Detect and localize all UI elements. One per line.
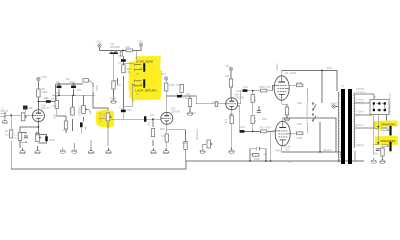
svg-text:22n: 22n (150, 113, 155, 117)
svg-text:R14: R14 (161, 72, 166, 76)
svg-text:GND: GND (110, 96, 116, 100)
svg-text:22n: 22n (77, 88, 82, 92)
svg-text:1.5k: 1.5k (253, 97, 257, 103)
svg-text:C4: C4 (56, 80, 60, 84)
svg-text:12AU7B: 12AU7B (234, 96, 244, 100)
svg-text:LOOP_RETURN: LOOP_RETURN (136, 88, 157, 92)
svg-text:presence: presence (195, 129, 199, 140)
svg-text:V4: V4 (285, 71, 289, 75)
svg-text:MID: MID (53, 114, 57, 119)
svg-text:10k: 10k (176, 83, 181, 87)
svg-text:R29: R29 (297, 122, 302, 126)
svg-text:1M: 1M (117, 83, 121, 87)
svg-text:+340V: +340V (275, 63, 279, 71)
svg-text:+25V: +25V (137, 40, 143, 44)
svg-text:22k: 22k (126, 45, 131, 49)
svg-text:1M: 1M (186, 92, 190, 96)
svg-text:BRIGHT: BRIGHT (91, 83, 95, 93)
svg-text:C7: C7 (118, 54, 122, 58)
svg-text:R7: R7 (51, 97, 55, 101)
svg-text:R9: R9 (66, 77, 70, 81)
svg-text:R11: R11 (63, 128, 68, 132)
svg-text:10uF: 10uF (49, 138, 55, 142)
svg-text:SPEAKER2: SPEAKER2 (381, 139, 396, 143)
svg-text:16 Ohm: 16 Ohm (356, 90, 365, 94)
svg-text:(green): (green) (355, 123, 363, 127)
svg-text:250k: 250k (95, 85, 99, 91)
svg-text:22n: 22n (236, 89, 241, 93)
svg-text:EL84: EL84 (290, 71, 297, 75)
svg-text:(red): (red) (326, 66, 332, 70)
svg-text:33k: 33k (52, 104, 57, 108)
svg-text:R25: R25 (262, 117, 267, 121)
svg-text:47k: 47k (126, 70, 131, 74)
svg-text:INPUT: INPUT (1, 109, 9, 113)
svg-text:10k: 10k (224, 119, 228, 124)
svg-text:C16: C16 (240, 125, 245, 129)
svg-text:68k: 68k (29, 106, 34, 110)
svg-text:Impedance Switch: Impedance Switch (388, 93, 392, 115)
svg-text:R22: R22 (228, 114, 232, 119)
svg-text:+340V: +340V (330, 102, 338, 106)
svg-text:1.5k: 1.5k (161, 134, 167, 138)
svg-text:10n: 10n (374, 152, 379, 156)
svg-text:LOOP_SEND: LOOP_SEND (136, 60, 153, 64)
svg-text:100k: 100k (182, 141, 188, 145)
svg-text:R19: R19 (160, 127, 165, 131)
svg-text:TREBLE: TREBLE (78, 106, 82, 116)
svg-text:1.5k: 1.5k (253, 118, 257, 124)
svg-text:1.5k: 1.5k (15, 136, 21, 140)
svg-text:12AX7B: 12AX7B (171, 110, 181, 114)
svg-text:100k: 100k (42, 90, 48, 94)
svg-text:+25V: +25V (96, 40, 102, 44)
svg-text:1M: 1M (192, 111, 196, 115)
svg-text:100k: 100k (169, 83, 175, 87)
svg-text:Re: Re (226, 64, 230, 68)
svg-text:V5: V5 (286, 147, 290, 151)
svg-text:orange: orange (356, 87, 365, 91)
svg-text:BASS: BASS (68, 108, 72, 115)
svg-text:470R: 470R (296, 136, 302, 140)
svg-text:340V: 340V (275, 148, 281, 152)
svg-text:250p: 250p (70, 80, 76, 84)
svg-text:(brown): (brown) (323, 148, 332, 152)
svg-text:R28: R28 (297, 101, 302, 105)
svg-text:C14: C14 (212, 100, 217, 104)
svg-text:SPEAKER1: SPEAKER1 (381, 122, 396, 126)
svg-text:C15: C15 (243, 85, 248, 89)
svg-text:(white): (white) (356, 100, 364, 104)
svg-text:22k: 22k (225, 74, 230, 78)
svg-text:12AX7A: 12AX7A (41, 106, 51, 110)
svg-text:175V: 175V (41, 75, 47, 79)
svg-text:100n: 100n (127, 108, 133, 112)
svg-text:NFB: NFB (288, 159, 293, 163)
svg-text:BC546B: BC546B (110, 45, 120, 49)
svg-text:(black): (black) (356, 143, 364, 147)
svg-text:C12: C12 (183, 96, 188, 100)
svg-text:470R: 470R (296, 81, 302, 85)
svg-text:22n: 22n (44, 96, 49, 100)
svg-text:C10: C10 (120, 106, 125, 110)
svg-text:1M: 1M (5, 132, 9, 136)
svg-text:330k: 330k (254, 157, 260, 161)
svg-text:47n: 47n (118, 61, 123, 65)
svg-text:MASTER: MASTER (99, 112, 103, 123)
svg-text:(R27) 470: (R27) 470 (259, 126, 271, 130)
svg-text:Triode/Pentode: Triode/Pentode (305, 103, 309, 121)
svg-text:(R26) 470: (R26) 470 (259, 85, 271, 89)
svg-text:1M: 1M (102, 113, 106, 117)
svg-text:C5: C5 (55, 91, 59, 95)
svg-text:1M: 1M (147, 122, 151, 126)
svg-text:green: green (356, 112, 363, 116)
